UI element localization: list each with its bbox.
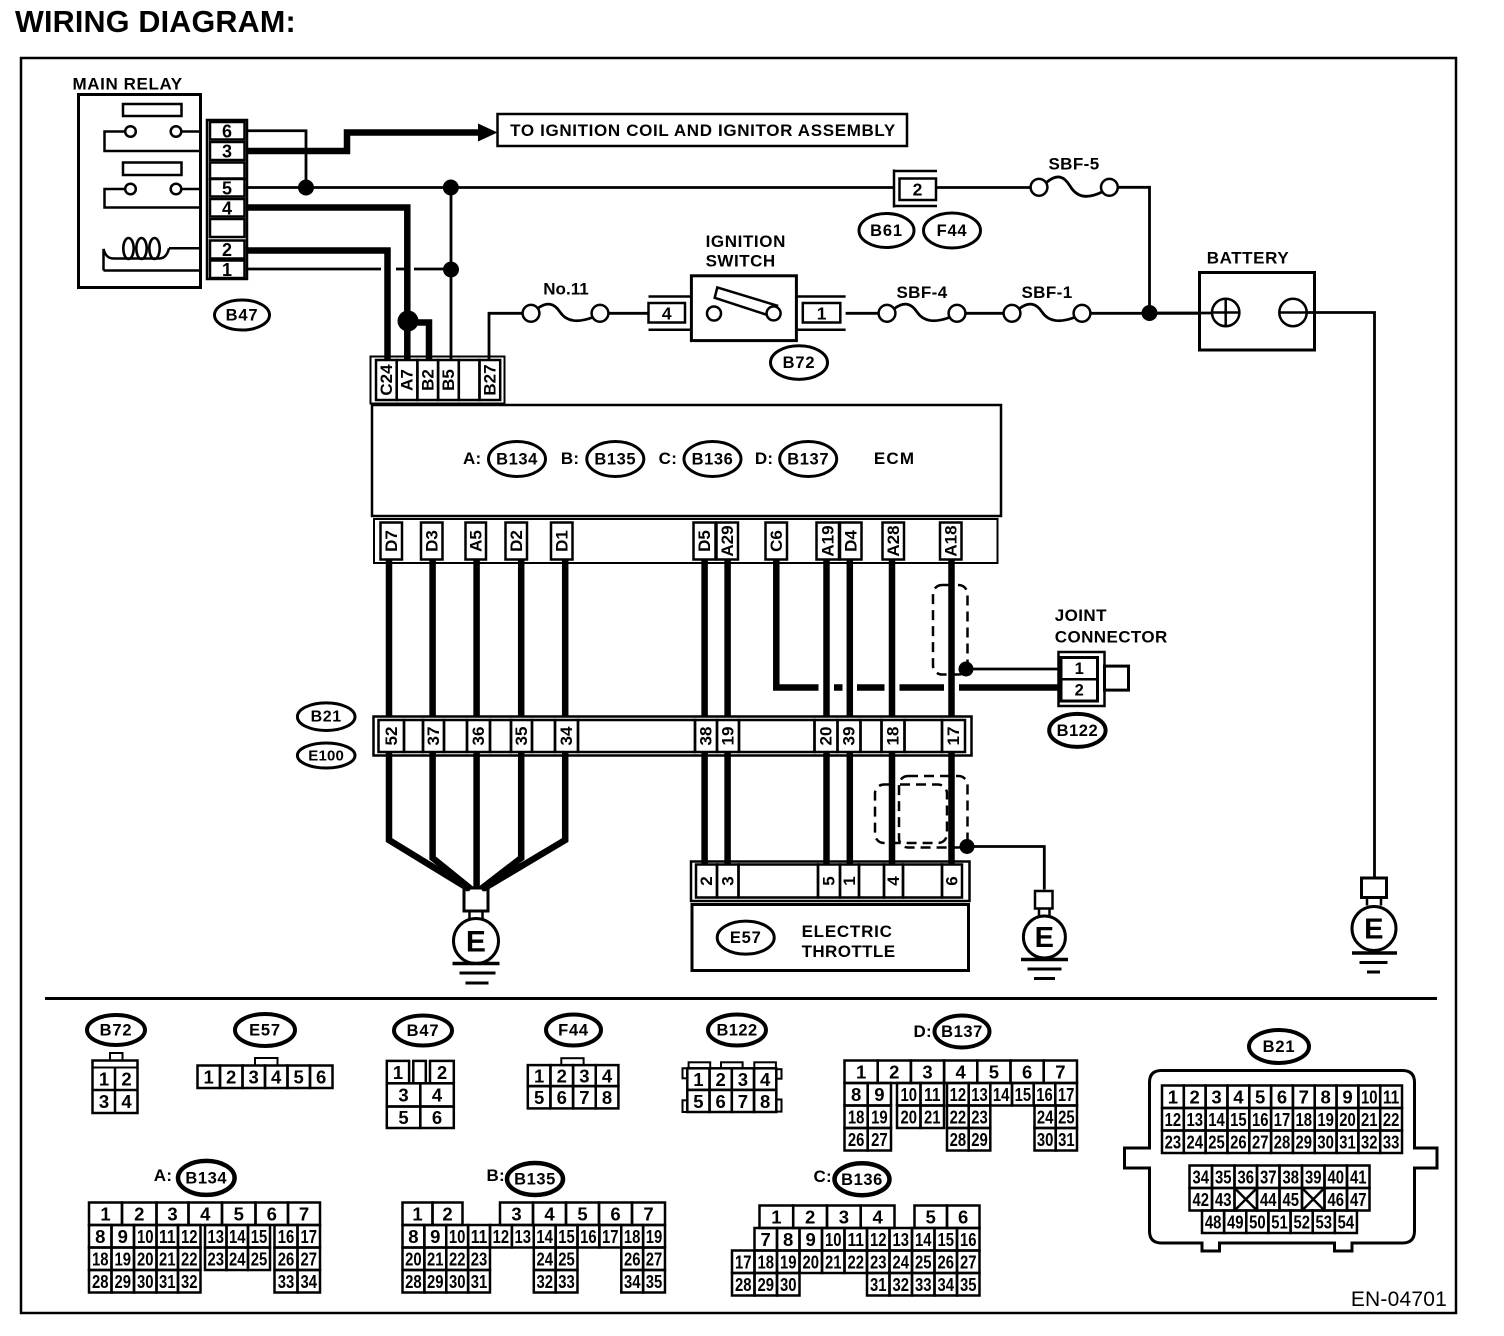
- svg-text:15: 15: [1015, 1084, 1032, 1105]
- svg-text:12: 12: [870, 1229, 887, 1250]
- svg-text:E57: E57: [730, 929, 762, 947]
- svg-text:30: 30: [137, 1271, 154, 1292]
- svg-text:30: 30: [780, 1274, 797, 1295]
- wire fuse2 to SBF-5: [936, 186, 1031, 189]
- svg-text:B135: B135: [594, 451, 636, 469]
- svg-text:11: 11: [159, 1226, 176, 1247]
- svg-text:37: 37: [1260, 1167, 1277, 1188]
- svg-text:36: 36: [469, 727, 488, 746]
- ground E middle circle: [1023, 916, 1065, 958]
- ground E right circle: [1352, 907, 1396, 951]
- svg-text:10: 10: [1361, 1087, 1378, 1108]
- svg-text:9: 9: [118, 1226, 128, 1247]
- svg-text:18: 18: [884, 727, 903, 746]
- ground E left terminal box: [464, 888, 488, 911]
- svg-text:17: 17: [944, 727, 963, 746]
- shield dashed box on A18 wire: [933, 585, 968, 675]
- connector id ellipse B21 (pinout): [1249, 1030, 1309, 1063]
- connector id ellipse B137 (pinout): [935, 1016, 990, 1048]
- svg-text:E57: E57: [249, 1022, 281, 1040]
- svg-text:22: 22: [449, 1249, 466, 1270]
- svg-text:12: 12: [1165, 1109, 1182, 1130]
- svg-text:7: 7: [299, 1204, 309, 1225]
- svg-text:5: 5: [222, 178, 232, 198]
- ECM box: [372, 405, 1001, 516]
- svg-text:8: 8: [1320, 1087, 1330, 1108]
- svg-text:16: 16: [278, 1226, 295, 1247]
- svg-text:15: 15: [251, 1226, 268, 1247]
- svg-text:C:: C:: [813, 1167, 832, 1186]
- svg-text:8: 8: [783, 1229, 793, 1250]
- wire pin39 to throttle pin1: [847, 752, 854, 865]
- svg-text:33: 33: [915, 1274, 932, 1295]
- electric throttle box E57: [692, 905, 969, 971]
- svg-text:C:: C:: [659, 449, 678, 468]
- svg-text:SBF-4: SBF-4: [896, 283, 947, 302]
- svg-text:14: 14: [536, 1226, 553, 1247]
- svg-text:10: 10: [901, 1084, 918, 1105]
- svg-text:27: 27: [301, 1249, 318, 1270]
- svg-text:24: 24: [1037, 1107, 1054, 1128]
- svg-text:D5: D5: [695, 530, 714, 552]
- svg-text:32: 32: [181, 1271, 198, 1292]
- svg-text:3: 3: [249, 1067, 259, 1088]
- svg-text:ELECTRIC: ELECTRIC: [802, 922, 893, 941]
- relay pin cells 6 3 5 4 2 1: [210, 122, 245, 140]
- joint connector pin cells 1 2: [1061, 658, 1098, 702]
- svg-text:3: 3: [99, 1091, 109, 1112]
- ground E middle earth lines: [1021, 958, 1068, 962]
- svg-text:17: 17: [301, 1226, 318, 1247]
- svg-text:1: 1: [1075, 660, 1084, 678]
- wire pin37 to ground junction: [433, 752, 471, 889]
- svg-text:27: 27: [646, 1249, 663, 1270]
- svg-text:7: 7: [761, 1229, 771, 1250]
- wire shield to ground E middle: [967, 847, 1044, 890]
- connector pinout B136 row4: [732, 1273, 755, 1296]
- svg-text:3: 3: [579, 1066, 589, 1087]
- svg-text:54: 54: [1338, 1212, 1355, 1233]
- svg-text:43: 43: [1215, 1189, 1232, 1210]
- svg-text:14: 14: [1208, 1109, 1225, 1130]
- connector pinout B136 row2: [755, 1228, 778, 1251]
- svg-text:13: 13: [1186, 1109, 1203, 1130]
- wire pin18 to throttle pin4: [889, 752, 896, 865]
- svg-text:10: 10: [825, 1229, 842, 1250]
- svg-text:TO IGNITION COIL AND IGNITOR A: TO IGNITION COIL AND IGNITOR ASSEMBLY: [510, 121, 896, 140]
- svg-text:6: 6: [958, 1207, 968, 1228]
- fuse holder 2 (B61/F44): [893, 170, 896, 208]
- fuse SBF-1: [1004, 305, 1021, 322]
- svg-text:25: 25: [558, 1249, 575, 1270]
- relay pin column outer box: [207, 120, 247, 279]
- svg-text:52: 52: [382, 727, 401, 746]
- body connector row cells 52 37 36 35 34 38 19 20 39 18 17: [379, 720, 405, 752]
- svg-text:IGNITION: IGNITION: [706, 232, 786, 251]
- svg-text:B2: B2: [418, 369, 437, 391]
- svg-text:B21: B21: [1263, 1038, 1296, 1056]
- svg-text:30: 30: [449, 1271, 466, 1292]
- svg-text:22: 22: [950, 1107, 967, 1128]
- wire ECM A29 to pin19: [724, 560, 731, 718]
- svg-text:39: 39: [840, 727, 859, 746]
- junction node pin6-pin5: [298, 180, 314, 196]
- svg-text:6: 6: [222, 121, 232, 141]
- connector pinout B122: [689, 1062, 711, 1068]
- svg-text:27: 27: [871, 1129, 888, 1150]
- svg-text:D1: D1: [552, 530, 571, 552]
- svg-text:24: 24: [1186, 1132, 1203, 1153]
- svg-text:B27: B27: [480, 364, 499, 395]
- wire relay pin2 thick to ECM C24: [247, 251, 388, 361]
- connector id ellipse B21 (row): [297, 703, 355, 731]
- svg-text:28: 28: [950, 1129, 967, 1150]
- svg-text:13: 13: [515, 1226, 532, 1247]
- junction node pin5-B5: [443, 180, 459, 196]
- svg-text:3: 3: [922, 1062, 932, 1083]
- fuse SBF-4: [879, 305, 896, 322]
- svg-text:1: 1: [840, 876, 859, 885]
- svg-text:1: 1: [534, 1066, 544, 1087]
- wire negative to right ground drop: [1307, 313, 1375, 879]
- connector pinout B21 shell: [1125, 1071, 1438, 1252]
- svg-text:31: 31: [870, 1274, 887, 1295]
- svg-text:4: 4: [1233, 1087, 1244, 1108]
- svg-text:1: 1: [99, 1069, 109, 1090]
- svg-text:32: 32: [536, 1271, 553, 1292]
- svg-text:E: E: [1035, 922, 1055, 954]
- svg-text:B72: B72: [100, 1022, 133, 1040]
- svg-text:53: 53: [1316, 1212, 1333, 1233]
- svg-text:CONNECTOR: CONNECTOR: [1055, 628, 1168, 647]
- svg-text:34: 34: [937, 1274, 954, 1295]
- svg-text:7: 7: [579, 1087, 589, 1108]
- svg-text:3: 3: [167, 1204, 177, 1225]
- wire pin35 to ground junction: [481, 752, 521, 889]
- ECM lower pin cells D7 D3 A5 D2 D1 D5 A29 C6 A19 D4 A28 A18: [381, 523, 403, 560]
- wire pin17 to throttle pin6: [948, 752, 955, 865]
- connector pinout B137 row2: [845, 1083, 868, 1106]
- relay contact 2 wiring: [105, 189, 201, 208]
- svg-text:32: 32: [892, 1274, 909, 1295]
- svg-text:15: 15: [1230, 1109, 1247, 1130]
- svg-text:20: 20: [405, 1249, 422, 1270]
- svg-text:31: 31: [1058, 1129, 1075, 1150]
- svg-text:B122: B122: [716, 1022, 757, 1040]
- throttle connector row outer box: [691, 862, 970, 902]
- svg-text:38: 38: [1282, 1167, 1299, 1188]
- wire SBF-1 to battery junction: [1090, 312, 1199, 315]
- svg-text:2: 2: [1075, 682, 1084, 700]
- svg-text:49: 49: [1227, 1212, 1244, 1233]
- connector id ellipse B72 (switch): [771, 346, 828, 380]
- wire ECM B27 up to No.11 fuse: [489, 313, 523, 360]
- relay contact 2 bar: [123, 163, 182, 176]
- connector pinout B21 bottom grid row 48-54: [1202, 1211, 1224, 1234]
- wire pin38 to throttle pin2: [701, 752, 708, 865]
- wire ECM D7 to pin52: [386, 560, 393, 718]
- svg-text:2: 2: [121, 1069, 131, 1090]
- svg-text:40: 40: [1327, 1167, 1344, 1188]
- svg-text:4: 4: [602, 1066, 613, 1087]
- svg-text:B21: B21: [311, 709, 342, 726]
- svg-text:23: 23: [971, 1107, 988, 1128]
- svg-text:13: 13: [892, 1229, 909, 1250]
- connector id ellipse B122 (joint): [1049, 714, 1105, 747]
- connector pinout B21 bottom grid rows 34-47: [1190, 1166, 1213, 1189]
- svg-text:21: 21: [1361, 1109, 1378, 1130]
- svg-text:16: 16: [1252, 1109, 1269, 1130]
- svg-text:2: 2: [442, 1204, 452, 1225]
- svg-text:4: 4: [121, 1091, 132, 1112]
- svg-text:B:: B:: [561, 449, 580, 468]
- svg-text:17: 17: [1274, 1109, 1291, 1130]
- svg-text:2: 2: [889, 1062, 899, 1083]
- svg-text:1: 1: [393, 1062, 403, 1083]
- connector id ellipse B47: [215, 300, 270, 330]
- connector pinout B21 top grid rows 1-33: [1162, 1086, 1184, 1109]
- svg-text:27: 27: [960, 1252, 977, 1273]
- wire branch to ECM B2: [407, 323, 429, 361]
- svg-text:B134: B134: [496, 451, 538, 469]
- connector id ellipse B61: [859, 214, 914, 248]
- ground E left circle: [454, 919, 499, 964]
- svg-text:18: 18: [92, 1249, 109, 1270]
- svg-text:B122: B122: [1057, 722, 1098, 740]
- svg-text:2: 2: [1190, 1087, 1200, 1108]
- svg-text:4: 4: [222, 198, 232, 218]
- svg-text:E100: E100: [308, 748, 344, 765]
- body connector row outer box B21/E100: [374, 717, 972, 756]
- svg-text:21: 21: [159, 1249, 176, 1270]
- svg-text:41: 41: [1350, 1167, 1367, 1188]
- svg-text:2: 2: [222, 240, 232, 260]
- wire pin52 to ground junction: [389, 752, 469, 889]
- svg-text:23: 23: [471, 1249, 488, 1270]
- wire ECM D4 to pin39: [847, 560, 854, 718]
- connector pinout B72: [110, 1053, 123, 1061]
- connector pinout B136 row3: [732, 1251, 755, 1274]
- ground E right earth lines: [1352, 951, 1397, 955]
- connector pinout F44: [561, 1058, 583, 1065]
- svg-text:31: 31: [1339, 1132, 1356, 1153]
- svg-text:26: 26: [278, 1249, 295, 1270]
- svg-text:WIRING DIAGRAM:: WIRING DIAGRAM:: [15, 5, 296, 39]
- svg-text:24: 24: [892, 1252, 909, 1273]
- svg-text:14: 14: [229, 1226, 246, 1247]
- wire relay pin1 dashed to B5 node: [247, 268, 382, 271]
- svg-text:2: 2: [226, 1067, 236, 1088]
- svg-text:18: 18: [757, 1252, 774, 1273]
- svg-text:21: 21: [825, 1252, 842, 1273]
- svg-text:D:: D:: [913, 1022, 932, 1041]
- svg-text:1: 1: [1168, 1087, 1178, 1108]
- svg-text:2: 2: [716, 1069, 726, 1090]
- svg-text:5: 5: [989, 1062, 999, 1083]
- wire SBF-5 to battery junction: [1118, 187, 1150, 313]
- relay contact 1 contacts: [125, 126, 136, 137]
- svg-text:6: 6: [1277, 1087, 1287, 1108]
- svg-text:5: 5: [398, 1107, 408, 1128]
- svg-text:8: 8: [760, 1091, 770, 1112]
- svg-text:25: 25: [251, 1249, 268, 1270]
- svg-text:19: 19: [115, 1249, 132, 1270]
- wire vertical to ECM B5: [450, 188, 453, 361]
- wire relay pin5 to fuse holder 2: [247, 186, 895, 189]
- svg-text:29: 29: [1296, 1132, 1313, 1153]
- svg-text:B137: B137: [941, 1023, 983, 1041]
- svg-text:23: 23: [208, 1249, 225, 1270]
- connector id ellipse B47 (pinout): [394, 1016, 452, 1046]
- wire pin34 to ground junction: [483, 752, 565, 889]
- fuse SBF-5: [1031, 179, 1048, 196]
- svg-text:14: 14: [993, 1084, 1010, 1105]
- svg-text:25: 25: [915, 1252, 932, 1273]
- connector pinout B47: [387, 1061, 409, 1083]
- svg-text:4: 4: [200, 1204, 211, 1225]
- junction node A7 branch: [398, 311, 419, 332]
- connector pinout B135 row2: [403, 1225, 425, 1248]
- svg-text:10: 10: [449, 1226, 466, 1247]
- svg-text:21: 21: [427, 1249, 444, 1270]
- svg-text:16: 16: [1036, 1084, 1053, 1105]
- svg-text:20: 20: [1339, 1109, 1356, 1130]
- svg-text:5: 5: [534, 1087, 544, 1108]
- svg-text:B47: B47: [407, 1022, 440, 1040]
- svg-text:30: 30: [1317, 1132, 1334, 1153]
- svg-text:19: 19: [780, 1252, 797, 1273]
- svg-text:20: 20: [137, 1249, 154, 1270]
- svg-text:33: 33: [278, 1271, 295, 1292]
- battery box: [1200, 273, 1315, 351]
- connector id ellipse F44: [924, 213, 981, 248]
- wire No.11 to switch pin 4: [608, 312, 648, 315]
- svg-text:13: 13: [971, 1084, 988, 1105]
- connector pinout B136 row1: [760, 1206, 794, 1229]
- svg-text:26: 26: [1230, 1132, 1247, 1153]
- svg-text:1: 1: [817, 303, 827, 323]
- connector id ellipse B136 (ECM): [684, 442, 741, 477]
- relay contact 1 wiring: [105, 132, 201, 152]
- svg-text:8: 8: [602, 1087, 612, 1108]
- svg-text:8: 8: [95, 1226, 105, 1247]
- svg-text:1: 1: [856, 1062, 866, 1083]
- connector id ellipse F44 (pinout): [546, 1015, 601, 1046]
- svg-text:F44: F44: [937, 222, 968, 240]
- wire ECM A5 to pin36: [473, 560, 480, 718]
- svg-text:No.11: No.11: [543, 280, 589, 299]
- wire battery feed to positive: [1156, 312, 1212, 315]
- connector id ellipse B135 (ECM): [587, 442, 644, 477]
- ignition switch pin 1 holder: [796, 295, 845, 298]
- svg-text:3: 3: [398, 1085, 408, 1106]
- svg-text:34: 34: [624, 1271, 641, 1292]
- svg-text:6: 6: [1022, 1062, 1032, 1083]
- svg-text:9: 9: [874, 1084, 884, 1105]
- svg-text:B5: B5: [439, 369, 458, 391]
- svg-text:42: 42: [1192, 1189, 1209, 1210]
- svg-text:9: 9: [1342, 1087, 1352, 1108]
- wire ECM A28 to pin18: [889, 560, 896, 718]
- svg-text:9: 9: [806, 1229, 816, 1250]
- wire ECM D5 to pin38: [701, 560, 708, 718]
- svg-text:22: 22: [181, 1249, 198, 1270]
- svg-text:47: 47: [1350, 1189, 1367, 1210]
- svg-text:C24: C24: [377, 364, 396, 396]
- svg-text:27: 27: [1252, 1132, 1269, 1153]
- svg-text:32: 32: [1361, 1132, 1378, 1153]
- svg-text:F44: F44: [558, 1022, 589, 1040]
- svg-text:4: 4: [884, 876, 903, 886]
- svg-text:6: 6: [716, 1091, 726, 1112]
- svg-text:B134: B134: [185, 1169, 227, 1187]
- svg-text:51: 51: [1271, 1212, 1288, 1233]
- connector pinout B137 row4: [845, 1128, 868, 1151]
- wire ECM D2 to pin35: [518, 560, 525, 718]
- svg-text:35: 35: [646, 1271, 663, 1292]
- svg-text:5: 5: [577, 1204, 587, 1225]
- svg-text:11: 11: [847, 1229, 864, 1250]
- svg-text:4: 4: [662, 303, 672, 323]
- svg-text:A:: A:: [463, 449, 482, 468]
- svg-text:29: 29: [427, 1271, 444, 1292]
- ECM upper pin cells C24 A7 B2 B5 B27: [376, 360, 397, 400]
- wire pin20 to throttle pin5: [823, 752, 830, 865]
- svg-text:15: 15: [937, 1229, 954, 1250]
- svg-text:A29: A29: [718, 525, 737, 556]
- svg-text:4: 4: [872, 1207, 883, 1228]
- ignition switch box B72: [691, 276, 796, 341]
- svg-text:25: 25: [1058, 1107, 1075, 1128]
- svg-text:15: 15: [558, 1226, 575, 1247]
- svg-text:20: 20: [901, 1107, 918, 1128]
- svg-text:B136: B136: [692, 451, 734, 469]
- ECM upper pin row outer box: [371, 357, 505, 404]
- svg-text:39: 39: [1305, 1167, 1322, 1188]
- fuse No.11: [523, 305, 540, 322]
- wire pin19 to throttle pin3: [724, 752, 731, 865]
- connector pinout B134 row3: [89, 1248, 112, 1271]
- connector id ellipse E100 (row): [297, 743, 355, 768]
- svg-text:25: 25: [1208, 1132, 1225, 1153]
- svg-text:26: 26: [624, 1249, 641, 1270]
- wire pin36 to ground junction: [473, 752, 480, 889]
- shield dashed box on throttle pin6 wire: [899, 776, 968, 848]
- svg-text:14: 14: [915, 1229, 932, 1250]
- svg-text:4: 4: [956, 1062, 967, 1083]
- relay contact 1 bar: [123, 104, 182, 116]
- connector id ellipse B122 (pinout): [708, 1015, 766, 1046]
- svg-text:7: 7: [1299, 1087, 1309, 1108]
- svg-text:E: E: [1364, 914, 1384, 946]
- svg-text:8: 8: [408, 1226, 418, 1247]
- svg-text:5: 5: [234, 1204, 244, 1225]
- svg-text:34: 34: [301, 1271, 318, 1292]
- svg-text:4: 4: [760, 1069, 771, 1090]
- svg-text:28: 28: [735, 1274, 752, 1295]
- junction node battery feed: [1142, 305, 1158, 321]
- svg-text:34: 34: [1192, 1167, 1209, 1188]
- svg-text:1: 1: [222, 260, 232, 280]
- svg-text:19: 19: [719, 727, 738, 746]
- junction node pin1-B5: [443, 262, 459, 278]
- svg-text:5: 5: [294, 1067, 304, 1088]
- svg-text:B136: B136: [841, 1171, 883, 1189]
- svg-text:B137: B137: [787, 451, 829, 469]
- svg-text:18: 18: [624, 1226, 641, 1247]
- svg-text:4: 4: [544, 1204, 555, 1225]
- connector id ellipse B134 (ECM): [489, 442, 546, 477]
